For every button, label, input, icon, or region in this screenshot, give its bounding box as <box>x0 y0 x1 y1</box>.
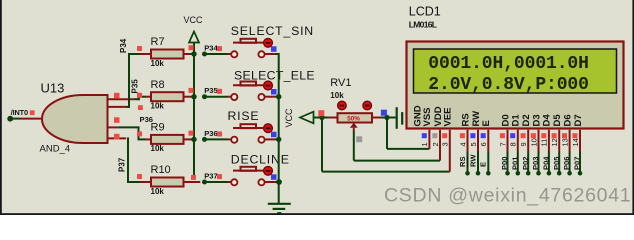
svg-text:/INT0: /INT0 <box>11 108 28 117</box>
switch SELECT_SIN <box>228 39 276 58</box>
svg-text:2: 2 <box>431 142 440 146</box>
gray square RV1 wiper <box>356 136 362 142</box>
junction ground rail row2 <box>276 94 281 99</box>
pin square R10 left <box>137 174 142 179</box>
wire LCD pin 8 down <box>517 152 519 173</box>
wire LCD pin 13 down <box>569 152 571 173</box>
wire LCD pin 7 down <box>507 152 509 173</box>
svg-text:9: 9 <box>519 142 528 146</box>
resistor R7 <box>140 50 191 59</box>
svg-text:14: 14 <box>571 138 580 146</box>
pin square P36 label <box>217 132 222 137</box>
wire R7 row horizontal <box>128 53 140 55</box>
LCD pin 6 stub <box>487 130 489 152</box>
indicator knob RV1 plus <box>363 101 372 110</box>
display LCD1 LM016L body <box>407 42 624 129</box>
wire buttons ground rail vertical <box>278 53 280 203</box>
junction LCD pin 10 wire end <box>536 171 541 176</box>
svg-text:SELECT_SIN: SELECT_SIN <box>231 24 314 38</box>
svg-text:P35: P35 <box>130 79 139 94</box>
svg-text:D7: D7 <box>573 114 584 126</box>
svg-text:P34: P34 <box>204 43 218 52</box>
svg-text:5: 5 <box>469 142 478 146</box>
junction LCD pin 11 wire end <box>547 171 552 176</box>
wire VCC to RV1 <box>314 117 329 119</box>
junction LCD pin 8 wire end <box>516 171 521 176</box>
switch DECLINE <box>228 167 276 186</box>
svg-text:E: E <box>481 120 492 126</box>
power VCC arrow terminal right <box>300 112 314 124</box>
svg-text:8: 8 <box>509 142 518 146</box>
wire LCD pin 11 down <box>548 152 550 173</box>
wire to LCD pin3 <box>322 171 450 173</box>
svg-text:10: 10 <box>529 138 538 146</box>
wire RV1 wiper down <box>353 131 355 161</box>
wire R8 row to lead <box>138 96 146 98</box>
pin square R7 left <box>137 46 142 51</box>
pin square LCD pin 3 <box>442 133 447 138</box>
wire RISE to ground rail <box>276 138 279 140</box>
svg-text:SELECT_ELE: SELECT_ELE <box>234 68 315 82</box>
svg-text:6: 6 <box>479 142 488 146</box>
svg-text:P37: P37 <box>204 171 218 180</box>
junction wire start P36 <box>202 137 207 142</box>
indicator red knob SELECT_SIN <box>264 38 273 47</box>
indicator red knob DECLINE <box>264 166 273 175</box>
junction VCC rail row R8 <box>191 94 196 99</box>
wire SELECT_SIN to ground rail <box>276 53 279 55</box>
svg-text:RW: RW <box>468 154 477 167</box>
wire P37 to button <box>205 181 228 183</box>
svg-text:VSS: VSS <box>422 107 433 126</box>
wire LCD pin 14 down <box>579 152 581 173</box>
pin square P35 label <box>217 89 222 94</box>
svg-text:AND_4: AND_4 <box>40 144 71 155</box>
svg-text:LCD1: LCD1 <box>409 5 441 19</box>
LCD pin 1 stub <box>428 130 430 149</box>
junction LCD pin 6 wire end <box>486 171 491 176</box>
svg-text:R7: R7 <box>151 36 165 48</box>
switch SELECT_ELE <box>228 82 276 101</box>
svg-text:D6: D6 <box>562 114 573 126</box>
LCD screen <box>414 49 617 93</box>
LCD pin 13 stub <box>569 130 571 152</box>
svg-text:U13: U13 <box>41 81 65 96</box>
pin square LCD pin 4 <box>460 133 465 138</box>
wire gate stub B corner <box>126 106 130 108</box>
wire RV1 left down (pin3 net) <box>321 118 323 172</box>
wire to LCD pin1 <box>387 148 429 150</box>
LCD pin 12 stub <box>558 130 560 152</box>
junction VCC rail row R9 <box>191 137 196 142</box>
pin square gate input C <box>114 117 120 123</box>
wire RV1 wiper down <box>353 128 355 131</box>
gate input pin stub C <box>108 126 118 128</box>
wire RV1 right down (pin1 net) <box>386 118 388 149</box>
svg-text:50%: 50% <box>347 116 360 123</box>
junction wire start P35 <box>202 94 207 99</box>
junction wire start P37 <box>202 180 207 185</box>
junction RV1 right <box>384 115 389 120</box>
svg-text:P03: P03 <box>531 156 540 170</box>
svg-text:CSDN @weixin_47626041: CSDN @weixin_47626041 <box>384 185 631 207</box>
LCD pin 9 stub <box>527 130 529 152</box>
resistor R9 <box>146 135 191 144</box>
gate output pin stub <box>21 118 44 120</box>
svg-text:D5: D5 <box>552 114 563 127</box>
resistor R10 <box>140 178 200 187</box>
wire output to INT0 <box>10 118 21 120</box>
pin square LCD pin 6 <box>481 133 486 138</box>
wire RV1 right to ground <box>381 117 396 119</box>
switch RISE <box>228 124 276 143</box>
svg-text:P07: P07 <box>573 156 582 170</box>
pin square P37 label <box>217 174 222 179</box>
svg-text:P02: P02 <box>521 156 530 170</box>
svg-text:P36: P36 <box>204 129 218 138</box>
svg-text:RS: RS <box>460 113 471 126</box>
gate input pin stub A <box>108 98 133 100</box>
pin square R8 left <box>137 93 142 98</box>
pin square LCD pin 2 <box>432 133 437 138</box>
svg-text:3: 3 <box>441 142 450 146</box>
svg-text:P04: P04 <box>542 156 551 170</box>
pin square gate input A <box>114 93 120 99</box>
pin square RISE right (blue) <box>271 132 277 138</box>
pin square LCD pin 13 <box>562 133 567 138</box>
svg-text:RISE: RISE <box>228 109 260 123</box>
junction LCD pin 12 wire end <box>557 171 562 176</box>
svg-text:13: 13 <box>560 138 569 146</box>
svg-text:P34: P34 <box>119 38 128 53</box>
svg-text:VCC: VCC <box>184 15 204 25</box>
pin square R7 right <box>189 45 194 50</box>
svg-text:P01: P01 <box>510 156 519 170</box>
RV1 left lead <box>328 117 338 119</box>
logic gate U13 AND_4 body <box>42 95 108 143</box>
wire jog up to R8 row <box>138 97 140 101</box>
svg-text:P00: P00 <box>500 156 509 170</box>
svg-text:7: 7 <box>498 142 507 146</box>
svg-text:DECLINE: DECLINE <box>231 153 290 167</box>
LCD pin 4 stub <box>467 130 469 152</box>
svg-text:12: 12 <box>550 138 559 146</box>
wire jog to R9 lead <box>138 138 147 140</box>
pin square gate output <box>30 110 35 115</box>
wire R7 right to VCC rail <box>191 53 195 55</box>
pin square SELECT_ELE right (blue) <box>271 89 277 95</box>
svg-text:RV1: RV1 <box>330 77 351 89</box>
ground terminal right of RV1 <box>397 107 408 129</box>
gate input pin stub D <box>108 137 126 139</box>
wire P37 to R10 lead <box>127 181 140 183</box>
LCD pin 2 stub <box>439 130 441 161</box>
LCD pin 11 stub <box>548 130 550 152</box>
junction LCD pin 14 wire end <box>578 171 583 176</box>
pin square LCD pin 8 <box>510 133 515 138</box>
LCD pin 14 stub <box>579 130 581 152</box>
svg-text:10k: 10k <box>151 144 165 153</box>
wire LCD pin 9 down <box>527 152 529 173</box>
svg-text:E: E <box>479 162 488 167</box>
wire P36 to button <box>205 138 228 140</box>
svg-text:2.0V,0.8V,P:000: 2.0V,0.8V,P:000 <box>428 75 589 95</box>
pin square R9 right <box>189 131 194 136</box>
svg-text:P37: P37 <box>117 157 126 172</box>
svg-text:D1: D1 <box>511 114 522 127</box>
pin square VCC rail end <box>191 175 196 180</box>
svg-text:D3: D3 <box>531 114 542 126</box>
wire DECLINE to ground rail <box>276 181 279 183</box>
junction LCD pin 9 wire end <box>526 171 531 176</box>
pin square gate input D <box>114 134 120 140</box>
indicator red knob SELECT_ELE <box>264 81 273 90</box>
pin square LCD pin 10 <box>531 133 536 138</box>
junction ground rail row3 <box>276 137 281 142</box>
wire LCD pin 4 down <box>467 152 469 173</box>
svg-text:4: 4 <box>458 142 467 146</box>
wire LCD pin 10 down <box>538 152 540 173</box>
border bottom <box>0 213 634 215</box>
svg-text:RS: RS <box>458 156 467 167</box>
junction LCD pin 13 wire end <box>567 171 572 176</box>
junction RV1 left <box>319 115 324 120</box>
wire vertical P34 net <box>128 53 130 108</box>
LCD pin 5 stub <box>477 130 479 152</box>
indicator red knob RISE <box>264 124 273 133</box>
wire jog down to R9 row <box>138 126 140 139</box>
svg-text:VCC: VCC <box>284 108 294 128</box>
svg-text:P06: P06 <box>562 156 571 170</box>
junction wire start P34 <box>202 52 207 57</box>
LCD pin 8 stub <box>517 130 519 152</box>
RW overline <box>466 157 468 168</box>
pin square LCD pin 12 <box>552 133 557 138</box>
pin square DECLINE right (blue) <box>271 174 277 180</box>
svg-text:R9: R9 <box>151 122 165 134</box>
potentiometer RV1 <box>338 113 382 128</box>
svg-text:10k: 10k <box>151 59 165 68</box>
pin square LCD pin 14 <box>572 133 577 138</box>
pin square stub A end <box>138 105 143 110</box>
pin square LCD pin 7 <box>500 133 505 138</box>
LCD pin 7 stub <box>507 130 509 152</box>
svg-text:0001.0H,0001.0H: 0001.0H,0001.0H <box>428 54 589 74</box>
pin square SELECT_SIN right (blue) <box>271 46 277 52</box>
pin square RV1 left <box>318 110 324 116</box>
wire LCD pin 12 down <box>558 152 560 173</box>
junction LCD pin 5 wire end <box>476 171 481 176</box>
junction INT0 wire end <box>7 116 13 122</box>
pin square LCD pin 11 <box>541 133 546 138</box>
svg-text:1: 1 <box>420 142 429 146</box>
svg-text:10k: 10k <box>151 102 165 111</box>
svg-text:R8: R8 <box>151 79 165 91</box>
border right <box>632 0 634 215</box>
wire LCD pin 5 down <box>477 152 479 173</box>
junction LCD pin 7 wire end <box>505 171 510 176</box>
pin square RV1 right (blue) <box>381 110 387 116</box>
wire P35 to button <box>205 96 228 98</box>
svg-text:LM016L: LM016L <box>409 19 437 29</box>
power VCC arrow terminal <box>189 32 199 43</box>
pin square LCD pin 1 <box>422 133 427 138</box>
junction VCC rail row R7 <box>191 51 196 56</box>
junction ground rail row4 <box>276 179 282 185</box>
wire VCC rail vertical <box>193 43 195 176</box>
wire R9 right to VCC rail <box>191 138 195 140</box>
svg-text:P05: P05 <box>552 156 561 170</box>
svg-text:P35: P35 <box>204 86 218 95</box>
ground symbol <box>268 204 291 213</box>
indicator knob RV1 minus <box>338 101 347 110</box>
svg-text:R10: R10 <box>151 164 171 176</box>
svg-text:VEE: VEE <box>443 107 454 126</box>
svg-text:10k: 10k <box>151 187 165 196</box>
border left <box>0 0 2 215</box>
wire gate stub C to jog <box>118 126 139 128</box>
wire LCD pin 6 down <box>487 152 489 173</box>
gate input pin stub B <box>108 106 126 108</box>
LCD pin 10 stub <box>538 130 540 152</box>
svg-text:11: 11 <box>540 139 549 147</box>
wire P34 to button <box>205 53 228 55</box>
pin square R9 left <box>137 131 142 136</box>
wire vertical P37 net <box>127 137 129 182</box>
wire gate stub A toward R8 <box>133 98 140 100</box>
wire wiper to LCD pin2 <box>354 160 440 162</box>
svg-text:10k: 10k <box>330 91 344 100</box>
pin square LCD pin 9 <box>521 133 526 138</box>
wire SELECT_ELE to ground rail <box>276 96 279 98</box>
pin square P34 label <box>217 46 222 51</box>
pin square LCD pin 5 <box>470 133 475 138</box>
pin square R8 right <box>189 88 194 93</box>
junction LCD pin 4 wire end <box>465 171 470 176</box>
resistor R8 <box>146 92 191 101</box>
LCD pin 3 stub <box>449 130 451 172</box>
wire R8 right to VCC rail <box>191 96 195 98</box>
